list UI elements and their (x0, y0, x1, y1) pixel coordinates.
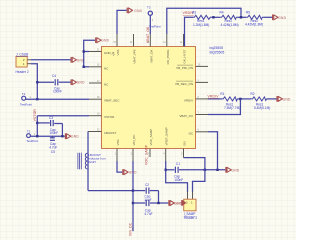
node C2/C6 gnd (157, 202, 159, 204)
pin 10 VB_PRI_ON (right) (176, 63, 208, 70)
wire VSS bottom to gnd (117, 161, 122, 172)
wire C1 to gnd (205, 169, 225, 171)
svg-text:VB_SEC_ON: VB_SEC_ON (175, 82, 193, 86)
pin 9 VB_SEC_ON (right) (175, 79, 208, 86)
wire C2 right to lower gnd wire (158, 191, 160, 203)
svg-text:R4: R4 (220, 10, 224, 14)
pin 12 OK_PROG (top) (163, 34, 170, 64)
wire R3-R4 (211, 16, 220, 18)
svg-text:100nF: 100nF (174, 178, 183, 182)
svg-text:GND: GND (283, 97, 291, 101)
pin 5 EN (bottom) (181, 141, 186, 157)
node pin21 (83, 50, 85, 52)
svg-text:VB_PRI_ON: VB_PRI_ON (176, 66, 193, 70)
svg-text:100nF: 100nF (49, 131, 58, 135)
svg-text:4.7uF: 4.7uF (144, 212, 152, 216)
wire R2 to gnd (267, 98, 277, 100)
svg-text:R1: R1 (220, 92, 224, 96)
resistor R1 (220, 92, 240, 110)
capacitor C6 (133, 200, 168, 216)
ground GND (C4) (71, 79, 86, 85)
svg-text:R5: R5 (246, 10, 250, 14)
node VIN/LBOOST (132, 189, 134, 191)
pin 16 NC (left) (89, 64, 109, 71)
capacitor C5 (49, 136, 57, 154)
ground GND (chip top-left) (95, 37, 110, 43)
svg-text:VIN_DC: VIN_DC (129, 222, 133, 236)
ground GND (VIN caps) (168, 200, 183, 206)
pin 17 NC (left) (89, 80, 109, 87)
svg-text:V: V (113, 53, 115, 57)
pin 20 LBOOST (left) (88, 128, 116, 135)
svg-text:R2: R2 (251, 92, 255, 96)
wire OK_PROG to divider (167, 8, 241, 34)
pin 8 VRDIV (right) (184, 96, 208, 103)
node EN path joins (204, 169, 206, 171)
node R1/R2 junction VBAT_OV (239, 98, 241, 100)
wire VREF_SAMP down (165, 161, 167, 170)
svg-text:VBAT_OK: VBAT_OK (149, 50, 153, 64)
node connector/VBAT_SEC (36, 98, 38, 100)
capacitor C3 (37, 116, 62, 135)
wire GND_B / NC pins to ground (84, 40, 95, 51)
svg-text:C4: C4 (52, 74, 56, 78)
wire OK_HYST to divider (185, 17, 194, 46)
pin 15 VSS (top) (113, 34, 120, 56)
svg-text:GND: GND (232, 168, 240, 172)
svg-text:10uF: 10uF (144, 198, 151, 202)
pin 1 VSS (bottom) (115, 139, 120, 161)
wire VSTOR (37, 115, 89, 117)
svg-text:VBAT_OK: VBAT_OK (146, 26, 150, 43)
capacitor C1 (166, 162, 205, 182)
wire VSTOR down (36, 116, 38, 136)
node pin16 (83, 66, 85, 68)
node NC wire joins (216, 169, 218, 171)
svg-text:GND: GND (77, 81, 85, 85)
node C3 tap (36, 122, 38, 124)
svg-text:OK_HYST: OK_HYST (183, 49, 187, 63)
resistor R3 (192, 10, 211, 27)
capacitor C2 (133, 183, 159, 202)
pin 14 VBAT_PRI (top) (130, 34, 137, 64)
wire NC right pin to gnd wire (208, 132, 218, 170)
svg-text:GND: GND (134, 9, 142, 13)
capacitor C4 (37, 74, 70, 94)
svg-text:VBAT_OV: VBAT_OV (179, 114, 193, 118)
svg-text:VOC_SAMP: VOC_SAMP (144, 144, 148, 165)
wire VSS top pin to ground (117, 10, 127, 34)
ground GND (VSS top) (127, 8, 143, 14)
pin 3 VOC_SAMP (bottom) (148, 129, 153, 157)
svg-text:T1: T1 (22, 92, 26, 96)
pin 19 VSTOR (left) (89, 113, 115, 120)
header J2 I_SAMP (184, 191, 198, 220)
wire EN pin to gnd / header (184, 158, 205, 192)
svg-text:1.2M(1.8M): 1.2M(1.8M) (193, 23, 209, 27)
svg-text:VSS: VSS (116, 50, 120, 56)
node C4 tap (36, 81, 38, 83)
svg-text:TestPoint: TestPoint (20, 103, 32, 107)
testpoint T2 (26, 129, 38, 143)
svg-text:GND: GND (71, 135, 79, 139)
svg-text:VIN_DC: VIN_DC (132, 134, 136, 146)
svg-text:OK_PROG: OK_PROG (166, 49, 170, 65)
svg-text:VSS: VSS (116, 139, 120, 145)
svg-text:TestPoint: TestPoint (149, 25, 161, 29)
ground GND (VSTOR caps) (65, 133, 80, 139)
node R4/R5 junction with OK_PROG (240, 16, 242, 18)
svg-text:Header 2: Header 2 (184, 216, 197, 220)
wire VIN_DC down (132, 161, 134, 231)
wire R4-R5 (237, 16, 246, 18)
svg-text:VRDIV: VRDIV (184, 98, 193, 102)
testpoint T3 (147, 6, 161, 35)
ground GND (connector pin2) (71, 57, 86, 63)
wire VRDIV pin (208, 98, 222, 100)
svg-text:GND: GND (101, 39, 109, 43)
ground GND (right divider) (276, 96, 291, 102)
wire connector pin2 to GND (31, 59, 71, 61)
node C3 at gnd wire (61, 135, 63, 137)
svg-text:VBAT_PRI: VBAT_PRI (133, 49, 137, 63)
node R3/R4 (212, 16, 214, 18)
svg-text:4.42M(1.8M): 4.42M(1.8M) (221, 23, 239, 27)
svg-text:TestPoint: TestPoint (26, 139, 38, 143)
pin 18 VBAT_SEC (left) (89, 96, 120, 103)
svg-text:C5: C5 (51, 150, 55, 154)
testpoint T1 (20, 92, 32, 107)
svg-text:VREF_SAMP: VREF_SAMP (165, 127, 169, 145)
IC designator bq25505 (210, 46, 225, 54)
svg-text:100nF: 100nF (53, 90, 62, 94)
svg-text:VSTOR: VSTOR (33, 109, 37, 122)
svg-text:VSTOR: VSTOR (104, 115, 115, 119)
ground GND (VSS bottom) (122, 169, 137, 175)
svg-text:4.7uF: 4.7uF (49, 145, 57, 149)
IC U1 bq25505 (102, 47, 196, 149)
svg-text:7.5M(7.7M): 7.5M(7.7M) (224, 106, 240, 110)
svg-text:VRDIV: VRDIV (208, 94, 220, 98)
wire connector pin1 down to VBAT_SEC net (31, 64, 37, 99)
resistor R5 (245, 10, 263, 26)
wire LBOOST to VIN_DC node (88, 190, 133, 192)
svg-text:GND: GND (278, 16, 286, 20)
pin 2 VIN_DC (bottom) (131, 134, 136, 161)
node VSTOR drop at gnd wire (36, 135, 38, 137)
pin 7 VBAT_OV (right) (179, 111, 208, 118)
inductor L1 LBOOST (78, 132, 106, 191)
node VREF_SAMP (165, 169, 167, 171)
wire R1-R2 (237, 98, 251, 100)
svg-text:T2: T2 (27, 129, 31, 133)
svg-text:22uH: 22uH (88, 160, 95, 164)
pin 11 OK_HYST (top) (180, 34, 187, 64)
svg-text:C2: C2 (145, 183, 149, 187)
wire VBAT_SEC (26, 98, 89, 100)
pin 21 GND_B (left) (89, 48, 115, 57)
svg-text:EN: EN (183, 141, 187, 145)
svg-text:C3: C3 (49, 116, 53, 120)
svg-text:VOC_SAMP: VOC_SAMP (149, 129, 153, 146)
pin 13 VBAT_OK (top) (147, 34, 154, 63)
svg-text:4.42M(1.8M): 4.42M(1.8M) (245, 22, 263, 26)
svg-text:Header 2: Header 2 (16, 70, 29, 74)
svg-text:LBOOST: LBOOST (104, 131, 116, 135)
svg-text:R3: R3 (192, 10, 196, 14)
ground GND (C1) (225, 167, 240, 173)
wire C3 right down to gnd wire (61, 124, 63, 137)
svg-text:T3: T3 (147, 6, 151, 10)
connector J1 J_CSUB (16, 52, 32, 74)
svg-text:BQ25505: BQ25505 (210, 50, 225, 54)
wire R5 to gnd (263, 16, 272, 18)
wire T2 to GND arrow (30, 135, 64, 137)
ground GND (top divider) (272, 14, 287, 20)
pin 4 VREF_SAMP (bottom) (163, 127, 168, 161)
svg-text:C1: C1 (176, 162, 180, 166)
pin 6 NC (right) (189, 129, 208, 136)
wire VREF_SAMP branch to header (166, 170, 188, 192)
svg-text:VBAT_SEC: VBAT_SEC (104, 99, 120, 103)
node VIN/cap2 (132, 202, 134, 204)
svg-text:J_CSUB: J_CSUB (16, 52, 28, 56)
resistor R4 (220, 10, 239, 27)
resistor R2 (251, 92, 271, 110)
wire VBAT_OV to divider tap (208, 99, 240, 115)
ground GND (header) (174, 200, 186, 206)
svg-text:5.4M(5.1M): 5.4M(5.1M) (254, 106, 270, 110)
